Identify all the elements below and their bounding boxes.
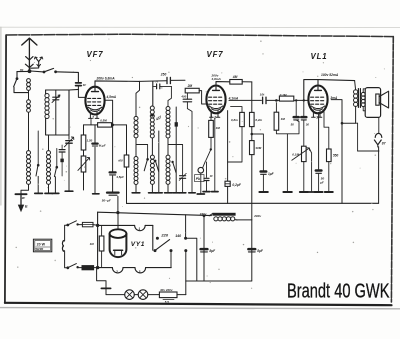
wire selector drop x186 — [185, 215, 187, 238]
svg-text:1F: 1F — [210, 174, 213, 178]
wire U-tap down — [286, 134, 288, 192]
switch S3a arm — [144, 160, 147, 171]
plug prong lower — [61, 246, 64, 251]
capacitor C7 400 — [183, 93, 191, 108]
wire B+ top — [251, 82, 253, 113]
svg-text:7t: 7t — [155, 80, 157, 84]
label pin 2 VF7b — [213, 115, 216, 119]
wire lamp link — [134, 294, 138, 296]
svg-text:1,50: 1,50 — [87, 139, 93, 143]
label 0,5M horizontal — [100, 119, 107, 123]
wire pin line VF7b — [214, 118, 216, 191]
label 700 — [118, 158, 123, 162]
wire VF7a plate top — [95, 81, 140, 88]
wire jack to bus — [378, 147, 380, 204]
ground tick pin line — [212, 191, 218, 193]
trimmer T1 in box — [52, 95, 60, 103]
label 4,8mA — [211, 77, 222, 81]
ground tick C10 — [259, 191, 267, 193]
label 0,2uF — [232, 183, 241, 187]
svg-text:3: 3 — [139, 270, 141, 274]
ground tick L6 — [165, 192, 173, 194]
scan speckle noise — [16, 39, 385, 289]
node S1b left contact — [43, 71, 46, 74]
coil L2 on box left edge — [45, 93, 49, 118]
output transformer core — [358, 89, 360, 108]
wire tap to C10 — [252, 134, 264, 170]
label E earth — [25, 204, 28, 208]
tube VF7a — [85, 87, 104, 119]
choke winding — [214, 217, 238, 221]
svg-text:5,5: 5,5 — [165, 300, 169, 304]
page edge left — [0, 27, 2, 205]
wire L1 mid — [28, 91, 30, 100]
wire S2b down — [54, 177, 56, 193]
coil L4 upper — [134, 116, 138, 137]
label VL1 — [311, 52, 328, 61]
page edge top — [0, 26, 400, 28]
svg-text:0,2µF: 0,2µF — [232, 183, 241, 187]
switch S4 arm — [206, 148, 212, 160]
ballast resistor R13 — [159, 292, 177, 300]
label 110 R12 — [90, 242, 95, 246]
title Brandt 40 GWK — [287, 279, 390, 302]
node L5 junction — [151, 114, 154, 117]
coil box outline — [46, 89, 79, 135]
label 0,1M grid — [280, 93, 287, 97]
svg-text:40v 220v: 40v 220v — [159, 288, 173, 292]
svg-text:VF7: VF7 — [207, 50, 224, 59]
ground tick wiper — [308, 191, 315, 193]
wire P2 wiper down — [310, 149, 312, 191]
svg-text:8µF: 8µF — [257, 249, 264, 253]
ground tick P2 — [300, 191, 308, 193]
speaker voice coil — [376, 94, 379, 105]
selector contact 140 top — [184, 237, 187, 240]
wire plate elbow to L4 — [136, 81, 140, 116]
wire L3 down — [48, 185, 50, 193]
ground tick S2b — [52, 192, 59, 194]
wire heater chain left — [97, 268, 106, 295]
capacitor C11 107 — [263, 97, 266, 103]
fuse F2 — [82, 266, 94, 270]
label 1uF — [268, 172, 275, 176]
wire antenna junction to S1b — [31, 70, 44, 73]
heater loop bottom — [98, 268, 172, 273]
wire C1 to VF7a grid — [78, 86, 85, 98]
switch S3a elbow — [136, 145, 149, 161]
label 0,8M — [231, 118, 238, 122]
svg-text:VF7: VF7 — [87, 50, 104, 59]
label pin 2 VF7a — [91, 116, 94, 120]
svg-text:550: 550 — [333, 153, 339, 157]
tube VY1 envelope — [110, 229, 127, 257]
border frame right edge — [391, 37, 393, 302]
svg-text:Brandt 40 GWK: Brandt 40 GWK — [287, 279, 390, 302]
node screen-rail junction — [111, 124, 114, 127]
wire S1b to C1 — [56, 72, 79, 83]
node switch top — [66, 224, 69, 227]
node antenna junction — [28, 69, 32, 73]
wire R1 to P1 — [83, 150, 85, 156]
ground tick PU — [197, 193, 204, 195]
ground tick C7 — [189, 192, 195, 194]
node tap 1uF — [251, 133, 254, 136]
label VF7 first — [87, 50, 104, 59]
ground tick heater — [101, 287, 110, 289]
label 50 C12 — [291, 123, 295, 127]
label 240v — [199, 212, 207, 216]
capacitor C2 small — [92, 125, 99, 194]
node grid junction 2 — [295, 99, 297, 101]
svg-text:4,5µF: 4,5µF — [115, 175, 124, 179]
svg-text:4,8mA: 4,8mA — [211, 77, 222, 81]
label 1M R10 — [281, 117, 286, 121]
svg-text:50: 50 — [291, 123, 295, 127]
svg-text:2: 2 — [91, 116, 94, 120]
wire VF7b cathode down — [227, 111, 229, 204]
label 457 IF — [154, 115, 163, 122]
wire S5a to fuse — [78, 224, 83, 226]
svg-text:6,2m: 6,2m — [255, 118, 262, 122]
label 50uF C14 — [319, 177, 324, 185]
switch S2b arm — [54, 149, 58, 177]
svg-text:4M: 4M — [232, 75, 238, 79]
node mains bottom — [96, 266, 99, 269]
node screen-primary junction — [341, 122, 344, 125]
svg-text:30: 30 — [306, 123, 310, 127]
wire plate corner to L5 — [152, 82, 154, 107]
capacitor C13 30 — [301, 100, 306, 120]
antenna A2 dipole — [31, 57, 43, 68]
wire S2a down — [37, 176, 39, 192]
label 200v — [211, 73, 219, 77]
coil L1 section a — [27, 79, 31, 91]
wire y123 to speaker drop — [356, 123, 358, 151]
label 4M — [232, 75, 238, 79]
wire box bottom to varcap — [68, 135, 70, 139]
wire plug top — [64, 225, 68, 241]
wire primary bottom — [342, 106, 356, 123]
wire L4b down — [135, 185, 137, 193]
svg-text:50~µF: 50~µF — [102, 198, 111, 202]
switch S5b arm — [68, 264, 79, 269]
svg-text:6t,µF: 6t,µF — [99, 144, 106, 148]
label 8uF C16 — [257, 249, 264, 253]
wire C4 to VY1 top cap wire — [117, 196, 119, 212]
label VF7 second — [207, 50, 224, 59]
label 40v 220v — [159, 288, 173, 292]
selector contact a — [154, 249, 157, 252]
label 50uF — [102, 198, 111, 202]
wire PU down — [200, 173, 202, 193]
svg-text:1t0: 1t0 — [90, 242, 95, 246]
output transformer primary — [354, 90, 358, 107]
svg-text:200v: 200v — [253, 214, 261, 218]
wire R2 to bus — [126, 167, 128, 203]
label 400 — [180, 94, 186, 98]
wire P2 down — [303, 162, 305, 192]
label 550 — [333, 153, 339, 157]
capacitor C9 0,2uF — [225, 181, 230, 186]
border frame top edge — [6, 34, 393, 36]
tube VY1 filament — [114, 250, 123, 254]
resistor R3 2M — [185, 88, 199, 93]
label 17 C1 — [83, 83, 87, 87]
selector contact c — [184, 249, 187, 252]
ground tick CV1 — [65, 190, 73, 192]
wire L1 to L1c — [28, 113, 30, 151]
svg-text:3: 3 — [316, 115, 318, 119]
jack chevron upper — [375, 133, 382, 137]
resistor R1a 0,5M horizontal — [98, 123, 112, 127]
wire R10 U-link — [276, 122, 299, 134]
ground tick R11 — [325, 191, 333, 193]
wire C11 to R9 — [266, 99, 279, 101]
wire plug bottom — [64, 251, 68, 268]
capacitor C5 250 — [167, 77, 170, 83]
label loop 2 — [115, 270, 118, 274]
wire R6 to C9 line — [228, 127, 242, 162]
wire VY1 feed — [98, 212, 212, 215]
wire 250 cap right — [170, 79, 185, 81]
wire P1 down — [83, 172, 85, 190]
node mains top — [96, 224, 99, 227]
svg-text:4,5mA: 4,5mA — [106, 95, 117, 99]
wire C13 to P2 — [303, 120, 305, 146]
svg-text:WZ2R: WZ2R — [35, 247, 43, 251]
label 1F C8 — [210, 174, 213, 178]
node grid junction 3 — [303, 99, 305, 101]
wire R4 to B+ line — [242, 81, 252, 83]
jack chevron lower — [374, 140, 381, 147]
svg-text:0,5M: 0,5M — [100, 119, 107, 123]
wire ground bus — [127, 202, 379, 204]
label 6,2M — [255, 118, 262, 122]
label 1M R5 — [216, 126, 221, 130]
wire R7-R8 — [251, 127, 253, 141]
resistor R2 700 — [124, 155, 129, 167]
ground tick L5 — [149, 192, 157, 194]
svg-text:1M: 1M — [216, 126, 221, 130]
svg-text:250: 250 — [160, 73, 167, 77]
wire loop right — [152, 225, 154, 250]
label 100v 52mA — [321, 73, 339, 77]
choke core bar — [209, 213, 235, 216]
antenna A1 mast — [28, 38, 30, 70]
switch S2a arm — [36, 131, 40, 176]
ground tick C8 — [203, 191, 210, 193]
wire VF7b plate top — [216, 82, 230, 87]
tube VL1 — [308, 86, 327, 118]
antenna A1 chevron upper — [26, 57, 33, 60]
switch S3b arm — [171, 161, 176, 173]
resistor R6 0,8M — [231, 107, 245, 127]
electrolytic C16 8uF — [248, 249, 255, 252]
heater loop top — [98, 225, 153, 230]
wire L5 link — [151, 138, 153, 155]
coil L1 section c — [27, 151, 31, 185]
wire F1 to node — [93, 224, 98, 227]
label 30 C13 — [306, 123, 310, 127]
switch S1b arm — [44, 68, 53, 71]
coil L5 upper — [150, 106, 154, 138]
wire plate to 250 cap — [140, 80, 167, 83]
ground tick S3b — [173, 192, 179, 194]
svg-text:0,1M: 0,1M — [280, 93, 287, 97]
wire bottom rail — [186, 280, 252, 282]
fuse F1 — [82, 222, 93, 226]
svg-text:3F: 3F — [22, 196, 26, 200]
svg-text:0,8m: 0,8m — [231, 118, 238, 122]
label 3mA — [330, 96, 338, 100]
wire primary top — [355, 81, 356, 90]
resistor R11 550 — [324, 112, 331, 162]
wire filter cap 1 drop — [203, 216, 205, 281]
coil L6 upper — [166, 106, 170, 138]
svg-text:1M: 1M — [281, 117, 286, 121]
label 200v — [253, 214, 261, 218]
coil L6b lower — [166, 155, 170, 184]
label PU — [195, 175, 204, 182]
resistor R7 6,2M — [250, 112, 255, 126]
svg-text:30M: 30M — [255, 146, 261, 150]
antenna A1 arrowhead — [22, 38, 37, 45]
wire VL1 plate to transformer — [318, 80, 355, 81]
switch S1a arm — [14, 79, 17, 87]
trimmer T2 — [168, 145, 186, 193]
node 50uF tap — [116, 211, 119, 214]
wire L6b down — [167, 185, 169, 193]
wire L1c to earth — [21, 185, 29, 194]
wire S1a to coil L1 tap — [14, 87, 28, 92]
tube VY1 top cap wire — [117, 213, 119, 230]
label VY1 — [131, 241, 145, 248]
resistor R1 150 — [81, 135, 86, 150]
coil L5b lower — [150, 155, 154, 184]
ground tick L3 — [45, 192, 53, 194]
wire R11 down — [328, 162, 330, 192]
wire ballast to selector line — [177, 294, 186, 296]
wire R8 to choke — [251, 155, 253, 220]
capacitor C12 50 — [294, 100, 299, 121]
svg-text:µF: µF — [319, 181, 324, 185]
wire secondary top — [363, 89, 365, 93]
wire antenna junction to left branch — [17, 70, 30, 72]
svg-text:8µF: 8µF — [209, 249, 216, 253]
svg-text:220: 220 — [160, 233, 168, 238]
label loop 3 — [139, 270, 141, 274]
wire L6 link — [167, 138, 169, 155]
wire contact 140 right — [186, 238, 197, 281]
ground tick L4 — [132, 192, 140, 194]
resistor R8 30M — [250, 141, 255, 155]
output transformer secondary — [361, 92, 365, 106]
label 2M — [187, 84, 193, 88]
label 0,1M P2 — [292, 153, 299, 157]
resistor R4 4M — [230, 80, 242, 85]
ground tick T2 — [179, 192, 185, 194]
wire VL1 top cap — [304, 80, 318, 101]
speaker housing — [365, 88, 380, 118]
wire pin2 to rail — [90, 119, 92, 125]
label 107 — [260, 93, 265, 97]
ground tick U-tap — [283, 191, 291, 193]
svg-text:400: 400 — [180, 94, 186, 98]
earth arrow — [18, 195, 24, 212]
electrolytic C15 8uF — [201, 249, 208, 252]
wire secondary bottom — [363, 106, 365, 110]
wire left branch down — [16, 72, 18, 79]
resistor R10 1M — [274, 100, 279, 130]
resistor R12 heater — [99, 225, 104, 267]
svg-text:140: 140 — [175, 234, 181, 238]
wire contact c down — [185, 251, 187, 295]
svg-text:20 W: 20 W — [37, 243, 46, 247]
wire VL1 cathode — [318, 112, 320, 169]
switch S5a arm — [68, 221, 79, 226]
wire rail to R1 — [83, 125, 85, 135]
svg-text:1: 1 — [138, 227, 140, 231]
antenna A1 chevron lower — [25, 64, 33, 67]
svg-text:100v 52mA: 100v 52mA — [321, 73, 339, 77]
label pin 3 VL1 — [316, 115, 318, 119]
svg-text:VL1: VL1 — [311, 52, 328, 61]
svg-text:1F: 1F — [83, 83, 87, 87]
label 27 antenna — [19, 69, 25, 73]
capacitor C1 plates — [76, 83, 82, 86]
wire VF7a screen line — [104, 100, 112, 171]
wire jack feed — [358, 150, 379, 152]
wire rail to R2 — [126, 125, 128, 155]
wire VF7b plate out — [229, 99, 261, 101]
svg-text:200v 6,8mA: 200v 6,8mA — [96, 77, 116, 81]
wire VF7b pin left — [210, 112, 212, 120]
label 6000 C2 — [99, 144, 106, 148]
border frame left edge — [5, 35, 6, 303]
wire mains left vertical — [97, 212, 99, 267]
label 30M — [255, 146, 261, 150]
tube VF7b — [206, 86, 225, 118]
node choke input tap — [203, 214, 206, 217]
label box 20W — [33, 239, 51, 252]
resistor R9 0,1M — [279, 96, 293, 101]
trimmer T3 — [59, 145, 65, 176]
wire S3a down — [154, 131, 159, 192]
capacitor C8 jack bypass — [204, 162, 209, 191]
label 37 — [22, 196, 26, 200]
label 140 — [175, 234, 181, 238]
coil L3 column — [47, 135, 51, 184]
wire to lamps — [106, 294, 125, 296]
wire C7 down — [187, 109, 192, 193]
ground tick C14 — [315, 191, 323, 193]
wire L5b down — [151, 185, 153, 193]
svg-text:2M: 2M — [187, 84, 193, 88]
label 4,5mA — [106, 95, 117, 99]
label 4,1mA — [228, 97, 239, 101]
label 87 jack — [382, 141, 387, 145]
label 5,5 — [165, 300, 169, 304]
lamp LA1 — [125, 290, 135, 300]
potentiometer P1 — [78, 156, 90, 172]
wire R9 to VL1 grid — [294, 99, 308, 101]
capacitor C6 grid — [153, 84, 172, 89]
label 220 — [160, 233, 168, 238]
electrolytic C4 50uF plates — [107, 193, 119, 196]
variable capacitor CV1 — [64, 137, 73, 147]
wire cathode rail — [84, 124, 127, 126]
